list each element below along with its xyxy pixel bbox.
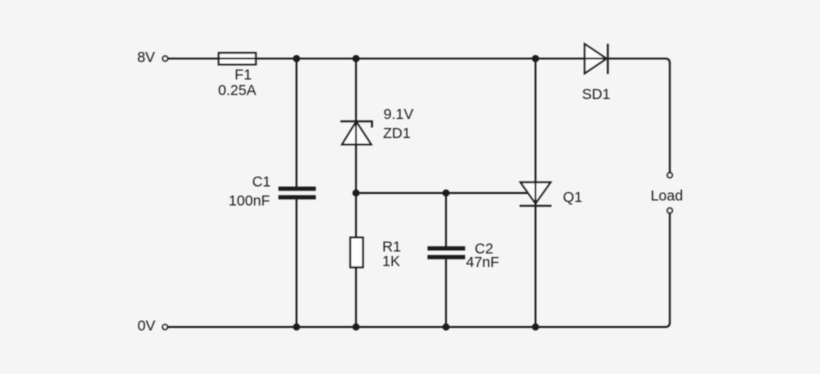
terminal: 8V input (163, 56, 168, 61)
resistor R1 (350, 238, 363, 268)
wire: C2 column from middle rail to top plate (445, 193, 447, 247)
svg-text:9.1V: 9.1V (384, 107, 414, 123)
svg-text:SD1: SD1 (582, 87, 610, 103)
svg-text:100nF: 100nF (229, 194, 270, 210)
wire: bottom rail from 0V terminal to right column, up to Load lower terminal (168, 213, 670, 327)
value 100nF (229, 194, 270, 210)
wire: C1 column lower segment (296, 199, 298, 327)
svg-text:1K: 1K (382, 254, 400, 270)
svg-text:0.25A: 0.25A (218, 83, 256, 99)
wire: C1 column upper segment (296, 59, 298, 187)
value 47nF (466, 255, 499, 271)
thyristor Q1 (520, 59, 552, 327)
terminal: 0V input (163, 325, 168, 330)
wire: top rail from SD1 cathode to right column, down to Load upper terminal (608, 59, 670, 173)
label R1 (382, 239, 401, 255)
wire: top rail from 8V terminal to SD1 anode (168, 58, 585, 60)
svg-text:47nF: 47nF (466, 255, 499, 271)
zener diode ZD1 (340, 121, 372, 144)
wire: from R1 to bottom rail (355, 267, 357, 327)
node label 8V (137, 50, 155, 66)
junction: middle rail at C2 (442, 189, 449, 196)
fuse F1 (219, 53, 256, 65)
junction: top rail at Q1 (532, 55, 539, 62)
svg-text:ZD1: ZD1 (383, 126, 411, 142)
junction: bottom rail at Q1 (532, 323, 539, 330)
diode SD1 (585, 44, 608, 74)
junction: top rail at C1 (293, 55, 300, 62)
junction: bottom rail at C1 (293, 323, 300, 330)
value 0.25A (218, 83, 256, 99)
label ZD1 (383, 126, 411, 142)
terminal: Load lower (667, 208, 672, 213)
svg-text:Q1: Q1 (563, 190, 582, 206)
label SD1 (582, 87, 610, 103)
wire: C2 column from bottom plate to bottom rail (445, 259, 447, 327)
svg-text:8V: 8V (137, 50, 155, 66)
junction: middle rail at ZD1/R1 (352, 189, 359, 196)
label C1 (252, 175, 271, 191)
value 9.1V (384, 107, 414, 123)
wire: middle rail (gate net) from ZD1/R1 node to Q1 gate (356, 192, 528, 194)
label C2 (475, 242, 494, 258)
capacitor C2 plates (428, 246, 466, 259)
node label 0V (138, 318, 156, 334)
svg-text:F1: F1 (235, 68, 252, 84)
capacitor C1 plates (278, 187, 315, 200)
value 1K (382, 254, 400, 270)
junction: bottom rail at C2 (442, 323, 449, 330)
wire: ZD1 column from top rail to zener cathode (355, 59, 357, 122)
svg-text:Load: Load (651, 189, 683, 205)
label F1 (235, 68, 252, 84)
junction: top rail at ZD1 (352, 55, 359, 62)
label Load (651, 189, 683, 205)
svg-text:0V: 0V (138, 318, 156, 334)
label Q1 (563, 190, 582, 206)
svg-text:C1: C1 (252, 175, 271, 191)
wire: from ZD1 anode down to middle rail node (355, 144, 357, 237)
terminal: Load upper (667, 173, 672, 178)
junction: bottom rail at R1 (352, 323, 359, 330)
